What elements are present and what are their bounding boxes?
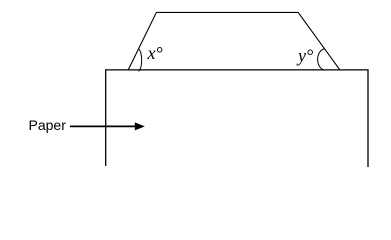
paper rectangle (open bottom) (106, 70, 368, 167)
flap trapezoid (128, 12, 339, 69)
svg-text:x°: x° (147, 43, 163, 63)
svg-text:y°: y° (296, 46, 313, 66)
angle arc x (138, 49, 141, 71)
arrow head (135, 122, 145, 130)
arrow line (70, 125, 136, 127)
svg-text:Paper: Paper (29, 117, 67, 133)
angle arc y (318, 49, 325, 70)
